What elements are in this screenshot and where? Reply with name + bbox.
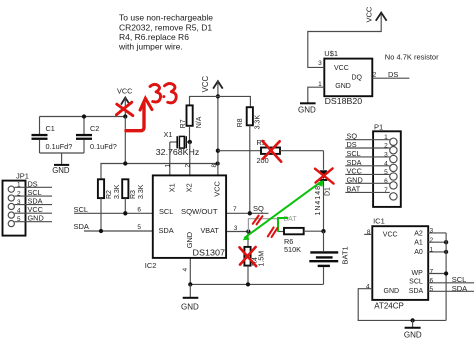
svg-text:No 4.7K resistor: No 4.7K resistor (385, 53, 439, 62)
power VCC symbol (crossed out) (117, 86, 132, 116)
svg-text:C2: C2 (90, 124, 99, 133)
svg-text:R2: R2 (106, 190, 113, 199)
ground GND under C1C2 (52, 153, 70, 175)
svg-text:0.1uFd?: 0.1uFd? (46, 142, 73, 151)
svg-text:DS: DS (28, 179, 38, 188)
wire C1C2 bottom rail (40, 152, 85, 154)
svg-text:D1: D1 (324, 187, 331, 196)
svg-text:6: 6 (430, 278, 434, 285)
svg-text:P1: P1 (374, 123, 383, 132)
svg-text:4: 4 (366, 283, 370, 290)
svg-text:1: 1 (430, 247, 434, 254)
red annotation cut marks on BAT wire right (268, 227, 278, 237)
svg-text:3.3K: 3.3K (138, 184, 145, 199)
svg-text:VCC: VCC (334, 65, 349, 72)
power VCC main arrow (201, 75, 223, 175)
junction dot VCC rail (216, 94, 220, 98)
wire IC1 pin6 SCL (428, 282, 474, 284)
junction dot IC1 gnd (410, 318, 414, 322)
junction dot pin4-gnd (188, 282, 192, 286)
junction dot R4-gnd (246, 282, 250, 286)
svg-text:A2: A2 (414, 230, 423, 237)
junction dot VCC-R5 (216, 149, 220, 153)
red annotation X over R4 (240, 247, 257, 266)
resistor R3 (122, 179, 145, 213)
green annotation arrowhead at VBAT (243, 234, 250, 240)
svg-text:3: 3 (318, 60, 322, 67)
svg-text:R4, R6.replace R6: R4, R6.replace R6 (119, 32, 189, 42)
wire IC2 pin7 SQ (226, 212, 269, 214)
diode D1 1N4148 (315, 170, 332, 231)
green annotation vertical at BAT (277, 218, 279, 232)
junction dot C2 top (82, 114, 86, 118)
svg-text:200: 200 (257, 156, 269, 165)
wire IC1 pin3 A2 (428, 232, 446, 234)
svg-text:SDA: SDA (409, 288, 424, 295)
crystal X1 (156, 130, 200, 157)
op-amp IC2 DS1307 box (145, 175, 226, 270)
green annotation horizontal at BAT (277, 217, 288, 219)
svg-text:R7: R7 (180, 119, 187, 128)
svg-text:SCL: SCL (409, 279, 423, 286)
wire X2 pin2 to IC2 (189, 142, 191, 176)
svg-text:WP: WP (412, 270, 424, 277)
svg-text:3: 3 (430, 228, 434, 235)
svg-text:BAT1: BAT1 (341, 246, 350, 264)
svg-text:VCC: VCC (213, 180, 222, 196)
IC IC1 AT24CP (372, 217, 428, 311)
svg-text:GND: GND (404, 331, 422, 340)
wire P1 pin7 BAT (345, 191, 390, 193)
wire SCL to IC2 pin 6 (74, 212, 153, 214)
svg-text:IC2: IC2 (145, 261, 157, 270)
svg-text:DS1307: DS1307 (193, 249, 226, 258)
resistor R2 (98, 179, 121, 231)
junction dot rail at VCC vertical (215, 161, 219, 165)
svg-text:CR2032, remove R5, D1: CR2032, remove R5, D1 (119, 22, 212, 32)
svg-text:N/A: N/A (196, 116, 203, 128)
svg-text:X2: X2 (184, 183, 193, 192)
svg-text:DS: DS (388, 70, 398, 79)
wire U$1 VCC pin3 (308, 13, 381, 67)
svg-text:BAT: BAT (347, 184, 361, 193)
wire IC1 pin5 SDA (428, 290, 474, 292)
wire JP1 pin5 GND (15, 221, 53, 223)
wire C1C2 top rail (40, 116, 126, 118)
svg-text:C1: C1 (46, 124, 55, 133)
ground GND under U$1 (298, 103, 316, 114)
svg-text:VCC: VCC (365, 6, 374, 22)
svg-text:5: 5 (430, 286, 434, 293)
svg-text:2: 2 (373, 72, 377, 79)
svg-text:GND: GND (298, 106, 316, 115)
wire IC1 pin2 A1 (428, 241, 446, 243)
red annotation X over R5 (263, 141, 282, 162)
wire VCC to R5 (218, 150, 261, 152)
svg-text:VBAT: VBAT (201, 226, 220, 235)
resistor R8 (237, 107, 261, 213)
svg-text:U$1: U$1 (324, 49, 338, 58)
wire BAT to R6 (278, 231, 284, 233)
svg-text:3.3K: 3.3K (255, 115, 262, 130)
wire JP1 pin1 DS (15, 186, 53, 188)
junction dot rail R3 (123, 161, 127, 165)
wire P1 pin5 VCC (345, 173, 390, 175)
junction dot A1 (444, 240, 448, 244)
green annotation diagonal wire VBAT to BAT+ (244, 181, 322, 238)
svg-text:GND: GND (52, 166, 70, 175)
wire IC2 pin4 down (189, 258, 191, 285)
svg-text:2: 2 (430, 237, 434, 244)
svg-text:R8: R8 (237, 118, 244, 127)
svg-text:VCC: VCC (117, 86, 132, 95)
svg-text:SDA: SDA (74, 222, 89, 231)
ground GND under IC2 (181, 284, 199, 311)
power VCC arrow right (365, 6, 387, 22)
junction dot VCC-C1C2 rail (123, 114, 127, 118)
svg-text:SDA: SDA (452, 284, 467, 293)
red annotation 3.3 text (150, 83, 176, 102)
wire IC1 pin1 A0 (428, 251, 446, 253)
svg-text:GND: GND (181, 302, 199, 311)
wire P1 pin3 SCL (345, 156, 390, 158)
svg-text:SCL: SCL (74, 205, 89, 214)
red annotation X over VCC symbol (116, 102, 132, 115)
svg-text:DS: DS (347, 140, 357, 149)
wire U$1 DQ to DS (372, 77, 409, 79)
svg-text:DS18B20: DS18B20 (325, 97, 363, 106)
wire X1 pin1 to IC2 (169, 142, 171, 176)
svg-text:X1: X1 (164, 130, 173, 139)
junction dot battery top (321, 229, 325, 233)
svg-text:8: 8 (211, 164, 218, 168)
svg-text:VCC: VCC (383, 231, 398, 238)
note text: instructions (118, 13, 213, 52)
pin numbers JP1 1-5 (17, 182, 21, 223)
red annotation X over D1 (315, 168, 334, 183)
junction dot WP (444, 271, 448, 275)
svg-text:DQ: DQ (352, 74, 363, 81)
wire JP1 pin2 SCL (15, 195, 53, 197)
svg-text:3: 3 (234, 225, 238, 232)
svg-text:GND: GND (384, 288, 400, 295)
svg-text:SQW/OUT: SQW/OUT (181, 207, 218, 216)
svg-text:SQ: SQ (253, 204, 264, 213)
svg-text:SCL: SCL (452, 275, 467, 284)
svg-text:4: 4 (182, 268, 189, 272)
svg-text:2: 2 (184, 164, 191, 168)
svg-text:GND: GND (347, 175, 363, 184)
svg-text:1N4148: 1N4148 (315, 186, 322, 216)
svg-text:X1: X1 (167, 183, 176, 192)
svg-text:6: 6 (137, 206, 141, 213)
connector P1 (373, 123, 401, 207)
red annotation cut marks on BAT wire top (253, 216, 263, 225)
connector JP1 (3, 172, 29, 236)
svg-text:32.768KHz: 32.768KHz (156, 148, 200, 157)
wire gray BAT detour (248, 219, 278, 232)
red annotation arrow to 3.3 (126, 98, 152, 130)
svg-text:A0: A0 (414, 249, 423, 256)
junction dot X1-R7 (188, 140, 192, 144)
svg-text:IC1: IC1 (373, 217, 385, 226)
svg-text:A1: A1 (414, 240, 423, 247)
svg-text:VCC: VCC (347, 166, 362, 175)
junction dot R3-SCL (123, 211, 127, 215)
wire JP1 pin4 VCC (15, 212, 53, 214)
capacitor C1 (32, 117, 73, 154)
wire VCC down to pull-up rail (124, 117, 126, 164)
svg-text:1.5M: 1.5M (258, 251, 265, 267)
svg-text:SCL: SCL (159, 207, 173, 216)
wire IC2 pin3 VBAT stub (226, 231, 248, 233)
svg-text:5: 5 (137, 224, 141, 231)
svg-text:510K: 510K (284, 245, 301, 254)
wire IC1 pin4 GND loop (358, 289, 446, 321)
svg-text:GND: GND (28, 214, 44, 223)
resistor R4 (244, 232, 265, 285)
wire VCC top rail R7 to R8 (190, 96, 251, 107)
svg-text:7: 7 (233, 206, 237, 213)
wire P1 pin4 SDA (345, 165, 390, 167)
wire pull-up rail R2 R3 to VCC line (101, 164, 218, 180)
svg-text:1: 1 (164, 164, 171, 168)
junction dot R2-SDA (99, 229, 103, 233)
battery BAT1 (309, 231, 349, 284)
wire SDA to IC2 pin 5 (84, 230, 153, 232)
svg-text:GND: GND (335, 83, 351, 90)
svg-text:SDA: SDA (159, 226, 174, 235)
IC U$1 DS18B20 (324, 49, 372, 106)
svg-text:BAT: BAT (284, 216, 298, 223)
capacitor C2 (76, 117, 117, 154)
svg-text:7: 7 (430, 268, 434, 275)
resistor R5 (257, 138, 324, 165)
svg-text:To use non-rechargeable: To use non-rechargeable (119, 13, 213, 23)
wire P1 pin1 SQ (345, 139, 390, 141)
wire IC1 address strap vertical (445, 233, 447, 321)
wire IC1 pin8 stub (364, 233, 372, 235)
wire U$1 GND pin1 (308, 87, 325, 102)
svg-text:VCC: VCC (201, 75, 210, 92)
wire P1 pin6 GND (345, 182, 390, 184)
wire IC1 pin7 WP (428, 273, 446, 275)
svg-text:SCL: SCL (347, 149, 361, 158)
resistor R7 N/A (180, 105, 203, 142)
svg-text:with jumper wire.: with jumper wire. (118, 42, 183, 52)
wire R5 to D1 (323, 151, 325, 170)
svg-text:AT24CP: AT24CP (374, 302, 404, 311)
wire ground rail (190, 283, 323, 285)
wire JP1 pin3 SDA (15, 204, 53, 206)
svg-text:0.1uFd?: 0.1uFd? (90, 142, 117, 151)
junction dot A0 (444, 250, 448, 254)
junction dot VBAT (246, 229, 250, 233)
green annotation arrowhead at D1 (318, 180, 324, 187)
junction dot R8-SQ (248, 211, 252, 215)
svg-text:R3: R3 (130, 190, 137, 199)
pin numbers P1 1-7 (384, 134, 388, 194)
wire P1 pin2 DS (345, 147, 390, 149)
resistor R6 (284, 228, 324, 254)
svg-text:3.3K: 3.3K (114, 184, 121, 199)
ground GND under IC1 (404, 320, 422, 339)
svg-text:GND: GND (185, 232, 194, 248)
